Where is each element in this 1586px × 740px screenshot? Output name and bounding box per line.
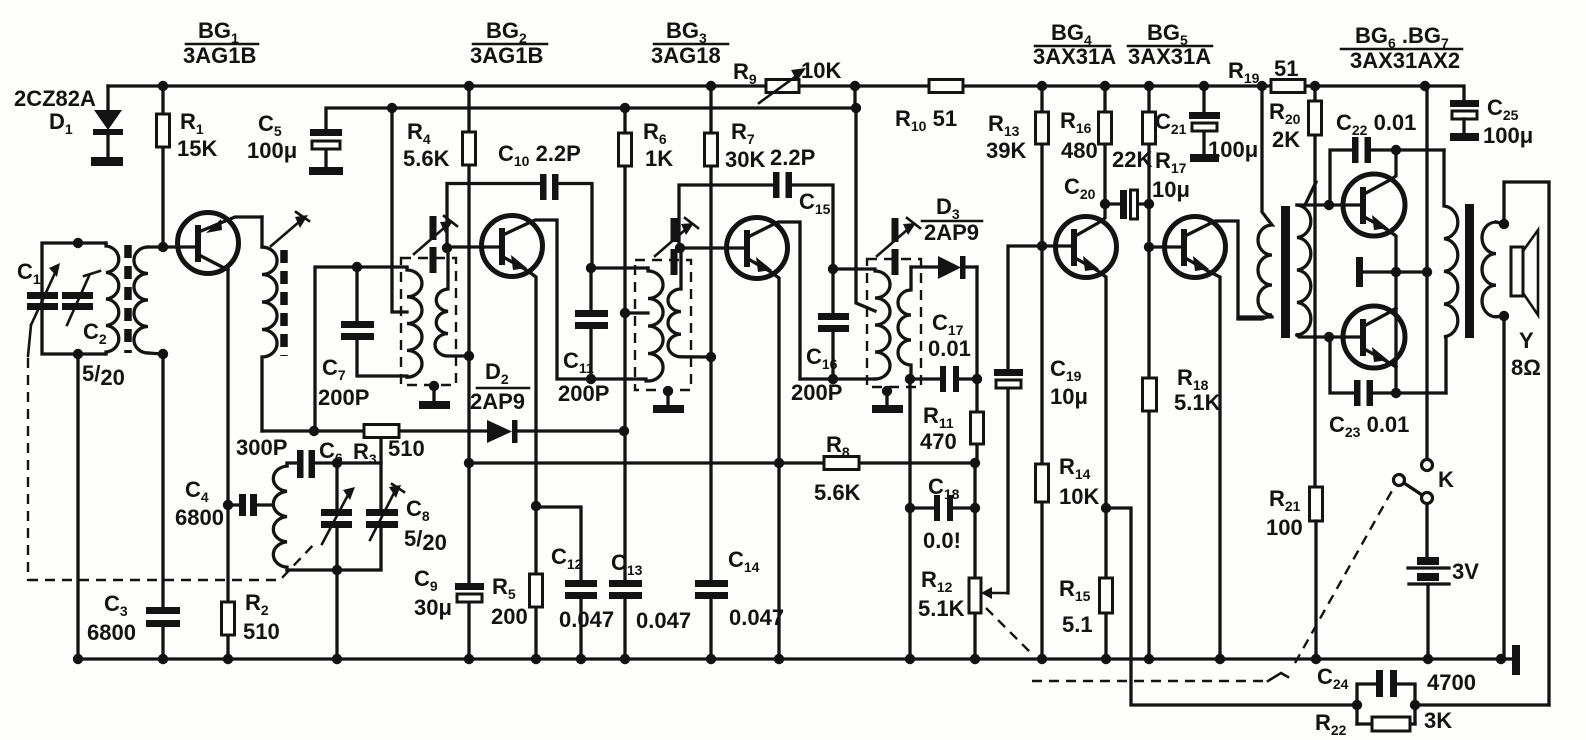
- IF T2 tuning arrow: [655, 218, 698, 256]
- wire BG4 base line: [1149, 204, 1181, 247]
- svg-text:51: 51: [1274, 56, 1298, 81]
- diode D2 2AP9: [470, 359, 624, 443]
- label BG2 3AG1B: [470, 18, 547, 68]
- node BG7 base-C23: [1324, 332, 1334, 342]
- capacitor C11 200P: [558, 268, 648, 406]
- IF T2 core slug: [671, 218, 678, 275]
- transistor BG7 3AX31: [1343, 306, 1405, 368]
- node rail-C21: [1199, 81, 1209, 91]
- resistor R1 15K: [157, 86, 218, 248]
- node collector-C4: [223, 500, 233, 510]
- node BG3 base: [675, 243, 685, 253]
- chassis bar bottom right: [1501, 645, 1520, 675]
- node rail-C3: [158, 654, 168, 664]
- svg-text:5.6K: 5.6K: [403, 146, 450, 171]
- svg-text:4700: 4700: [1427, 670, 1476, 695]
- capacitor C12 0.047: [536, 507, 614, 659]
- svg-text:39K: 39K: [986, 138, 1026, 163]
- node rail-78: [73, 654, 83, 664]
- capacitor C18 0.01: [905, 474, 980, 553]
- node rail-R9bypass: [850, 81, 860, 91]
- resistor R10 51 on rail: [895, 80, 963, 135]
- svg-text:2AP9: 2AP9: [470, 389, 525, 414]
- node rail-speaker: [1496, 654, 1506, 664]
- capacitor C23 0.01: [1329, 337, 1446, 440]
- wire T3 tap feed: [856, 108, 875, 311]
- wire R1 line down: [161, 354, 164, 607]
- output transformer core: [1465, 204, 1474, 338]
- wire IF1 primary tap feed: [392, 108, 407, 312]
- IF T2 ground: [653, 386, 684, 413]
- node rail-BG3e: [774, 654, 784, 664]
- label BG5 3AX31A: [1128, 20, 1212, 69]
- IF transformer T1 shield box: [401, 258, 456, 385]
- svg-text:200: 200: [491, 604, 528, 629]
- resistor R3 510: [353, 425, 425, 468]
- antenna coil core: [124, 245, 132, 353]
- wire tank bottom down: [76, 354, 79, 659]
- svg-text:BG6 .BG7: BG6 .BG7: [1355, 23, 1449, 51]
- svg-text:0.047: 0.047: [559, 607, 614, 632]
- svg-text:200P: 200P: [318, 385, 369, 410]
- svg-text:5.6K: 5.6K: [814, 480, 861, 505]
- node rail-910: [905, 654, 915, 664]
- capacitor C17 0.01: [910, 310, 977, 392]
- resistor R8 5.6K: [814, 432, 861, 505]
- wire speaker bottom down: [1502, 316, 1505, 659]
- node C20-R17: [1144, 199, 1154, 209]
- IF T3 secondary winding: [898, 267, 911, 379]
- wire C6 to ground rail: [335, 570, 338, 659]
- svg-text:C10 2.2P: C10 2.2P: [498, 141, 581, 169]
- oscillator coil tuning arrow: [271, 212, 309, 246]
- switch K: [1394, 460, 1455, 558]
- svg-text:5.1: 5.1: [1062, 612, 1093, 637]
- transistor BG6 3AX31: [1343, 150, 1405, 393]
- node R5 top: [531, 501, 541, 511]
- IF T1 core slug: [430, 216, 437, 273]
- variable capacitor C6: [319, 438, 355, 570]
- resistor R21 100: [1266, 486, 1323, 659]
- IF T3 core slug: [892, 218, 899, 275]
- svg-text:510: 510: [243, 619, 280, 644]
- wire BG6 base line: [1297, 203, 1360, 206]
- svg-text:100μ: 100μ: [247, 138, 297, 163]
- node rail-driver: [1257, 81, 1267, 91]
- svg-text:15K: 15K: [177, 136, 217, 161]
- node C23-collector: [1391, 388, 1401, 398]
- resistor R7 30K: [705, 86, 766, 659]
- IF T1 tuning arrow: [414, 216, 457, 254]
- chassis tap bar: [1356, 257, 1432, 287]
- node C22-collector: [1391, 145, 1401, 155]
- node C9 top: [464, 458, 474, 468]
- node line108-end: [851, 103, 861, 113]
- node rail-R15: [1101, 654, 1111, 664]
- node rail-R2: [223, 654, 233, 664]
- svg-text:6800: 6800: [87, 620, 136, 645]
- node rail-R21: [1311, 654, 1321, 664]
- svg-text:480: 480: [1061, 138, 1098, 163]
- capacitor C20 10u electrolytic: [1064, 174, 1149, 219]
- IF T2 primary winding: [646, 268, 663, 381]
- svg-text:100μ: 100μ: [1208, 137, 1258, 162]
- capacitor C13 0.047: [609, 550, 691, 633]
- svg-text:Y: Y: [1519, 328, 1534, 353]
- antenna coil primary: [106, 243, 119, 354]
- capacitor C9 30u electrolytic: [414, 463, 484, 659]
- IF T1 secondary winding: [435, 248, 469, 356]
- wire secondary top to base: [148, 245, 196, 248]
- node line108-R6: [620, 103, 630, 113]
- node coil-C7leg: [309, 426, 319, 436]
- capacitor C21 100u electrolytic: [1155, 86, 1258, 162]
- driver transformer primary: [1238, 86, 1272, 319]
- node rail-C13: [620, 654, 630, 664]
- node rail-R5: [531, 654, 541, 664]
- node rail-R17: [1144, 81, 1154, 91]
- capacitor C10 2.2P: [498, 141, 592, 268]
- IF T3 tuning arrow: [877, 218, 920, 256]
- resistor R14 10K: [1036, 246, 1100, 659]
- capacitor C15 2.2P: [679, 145, 833, 269]
- resistor R20 2K: [1269, 86, 1322, 487]
- resistor R15 5.1: [1059, 508, 1113, 659]
- svg-text:5.1K: 5.1K: [1174, 390, 1221, 415]
- resistor R2 510: [222, 590, 280, 644]
- svg-text:C22 0.01: C22 0.01: [1336, 110, 1416, 138]
- label BG6 BG7 3AX31AX2: [1341, 23, 1462, 73]
- transistor BG4 3AX31A: [1056, 204, 1117, 508]
- svg-text:3AX31AX2: 3AX31AX2: [1350, 48, 1460, 73]
- node T2 tap: [620, 308, 630, 318]
- svg-text:30K: 30K: [725, 147, 765, 172]
- transistor BG1 3AG1B: [178, 213, 263, 274]
- variable capacitor C1: [17, 259, 60, 356]
- wire switch feed: [1425, 86, 1428, 459]
- node rail-R20: [1310, 81, 1320, 91]
- svg-text:2AP9: 2AP9: [924, 220, 979, 245]
- oscillator tank coil: [273, 466, 287, 570]
- node rail-BG5e: [1215, 654, 1225, 664]
- node C17 left: [905, 374, 915, 384]
- node rail-R1: [158, 81, 168, 91]
- svg-text:5/20: 5/20: [82, 361, 125, 390]
- node R11-AGC: [970, 458, 980, 468]
- capacitor C25 100u electrolytic: [1450, 95, 1533, 148]
- node BG5 base: [1144, 242, 1154, 252]
- capacitor C16 200P: [791, 269, 849, 405]
- wire BG7 base line: [1297, 335, 1360, 337]
- wire R12 wiper up to BG4: [1008, 246, 1071, 593]
- node tank bottom C2: [73, 349, 83, 359]
- svg-text:3AX31A: 3AX31A: [1128, 44, 1211, 69]
- node rail-C6: [332, 654, 342, 664]
- node tankbot-C6: [332, 565, 342, 575]
- resistor R5 200: [491, 506, 543, 659]
- resistor R6 1K: [619, 108, 674, 659]
- antenna coil secondary: [134, 247, 148, 353]
- svg-text:3K: 3K: [1424, 708, 1452, 733]
- driver transformer core: [1281, 206, 1290, 338]
- capacitor C24 4700: [1317, 664, 1476, 724]
- resistor R19 51 on rail: [1228, 56, 1305, 93]
- node tanktop-C6: [332, 458, 342, 468]
- node rail-R16: [1100, 81, 1110, 91]
- node rail-R18: [1144, 654, 1154, 664]
- wire T3 sec bottom down: [908, 379, 911, 659]
- svg-text:3AG18: 3AG18: [651, 43, 721, 68]
- output transformer secondary: [1482, 222, 1504, 317]
- node T2sec-R7: [706, 352, 716, 362]
- node sec-bot: [158, 349, 168, 359]
- svg-text:10μ: 10μ: [1152, 177, 1190, 202]
- node R15 tap: [1101, 503, 1111, 513]
- wire R9 bypass stub: [853, 86, 856, 108]
- svg-text:10K: 10K: [1059, 484, 1099, 509]
- node rail-C12: [576, 654, 586, 664]
- resistor R16 480: [1060, 86, 1112, 204]
- svg-text:0.047: 0.047: [729, 605, 784, 630]
- node C17 right: [972, 374, 982, 384]
- resistor R4 5.6K: [403, 86, 476, 463]
- svg-text:0.0!: 0.0!: [923, 528, 961, 553]
- node rail-battery: [1423, 654, 1433, 664]
- node rail-R4: [464, 81, 474, 91]
- wire BG1 collector down: [226, 270, 229, 659]
- dashed gang link left: [28, 358, 316, 581]
- svg-text:2K: 2K: [1272, 127, 1300, 152]
- svg-text:22K: 22K: [1112, 147, 1152, 172]
- node speaker bottom: [1499, 311, 1509, 321]
- wire R4 branch: [447, 184, 540, 249]
- wire top supply rail: [108, 86, 1464, 101]
- oscillator coil core: [280, 250, 288, 356]
- svg-text:8Ω: 8Ω: [1511, 355, 1541, 380]
- svg-text:R10 51: R10 51: [895, 106, 957, 134]
- label BG3 3AG18: [651, 18, 728, 68]
- svg-text:6800: 6800: [175, 505, 224, 530]
- node base BG2: [442, 243, 452, 253]
- svg-text:0.01: 0.01: [928, 336, 971, 361]
- IF T2 tap wire: [625, 311, 648, 314]
- capacitor C3 6800: [87, 591, 180, 659]
- node C11 bottom: [586, 374, 596, 384]
- svg-text:470: 470: [920, 429, 957, 454]
- variable capacitor C8 5/20: [287, 431, 447, 570]
- potentiometer R12 5.1K volume: [918, 463, 1008, 659]
- resistor R13 39K: [986, 86, 1049, 246]
- node C5-tap: [387, 103, 397, 113]
- svg-text:0.047: 0.047: [636, 608, 691, 633]
- transistor BG5 3AX31A: [1165, 217, 1273, 660]
- variable capacitor C2: [62, 271, 125, 390]
- antenna tank frame: [42, 243, 106, 354]
- wire AGC bus y463: [469, 461, 975, 464]
- speaker Y 8ohm: [1511, 230, 1541, 380]
- svg-text:1K: 1K: [645, 146, 673, 171]
- node rail-switch: [1420, 81, 1430, 91]
- IF transformer T2 shield box: [635, 260, 691, 390]
- svg-text:510: 510: [388, 436, 425, 461]
- capacitor 300P: [236, 435, 381, 478]
- svg-text:2CZ82A: 2CZ82A: [14, 86, 96, 111]
- IF T2 secondary winding: [668, 248, 711, 357]
- capacitor C19 10u electrolytic: [994, 356, 1088, 409]
- capacitor C14 0.047: [695, 547, 784, 630]
- dashed link R12 to switch: [986, 608, 1030, 652]
- wire D3 cathode down: [975, 267, 978, 379]
- wire BG3 collector to T3: [800, 269, 875, 379]
- wire secondary bottom: [148, 353, 163, 354]
- battery 3V: [1408, 557, 1479, 659]
- label BG1 3AG1B: [183, 18, 258, 68]
- node rail-R13: [1037, 81, 1047, 91]
- wire feedback from R15 tap: [1106, 508, 1357, 705]
- svg-text:300P: 300P: [236, 435, 287, 460]
- node BG6 base-C22: [1324, 200, 1334, 210]
- capacitor C4 6800: [175, 477, 272, 530]
- node rail-R12: [970, 654, 980, 664]
- node rail-R7: [706, 81, 716, 91]
- svg-text:3AG1B: 3AG1B: [183, 43, 256, 68]
- svg-text:200P: 200P: [791, 380, 842, 405]
- IF T3 primary winding: [875, 271, 890, 379]
- node rail-C14: [706, 654, 716, 664]
- svg-text:C23 0.01: C23 0.01: [1329, 412, 1409, 440]
- node rail-C9: [464, 654, 474, 664]
- node C11 top: [586, 263, 596, 273]
- wire speaker top loop: [1496, 182, 1549, 705]
- svg-text:100μ: 100μ: [1483, 123, 1533, 148]
- svg-text:3AX31A: 3AX31A: [1033, 44, 1116, 69]
- potentiometer R9 10K on rail: [733, 58, 841, 103]
- capacitor C7 200P tank: [315, 267, 407, 431]
- capacitor C5 100u electrolytic: [247, 108, 856, 175]
- svg-text:3V: 3V: [1452, 559, 1479, 584]
- node C7 top: [352, 262, 362, 272]
- resistor R22 3K: [1315, 700, 1549, 738]
- resistor R17 22K: [1112, 86, 1190, 204]
- IF T1 primary winding: [407, 268, 422, 377]
- svg-text:10μ: 10μ: [1050, 384, 1088, 409]
- node BG4 base: [1037, 241, 1047, 251]
- wire AGC line R3-D2: [262, 429, 487, 432]
- node D2-R6line: [619, 426, 629, 436]
- node BG3 emitter-AGC: [774, 458, 784, 468]
- resistor R18 5.1K: [1143, 247, 1221, 659]
- svg-text:10K: 10K: [801, 58, 841, 83]
- svg-text:K: K: [1438, 467, 1454, 492]
- capacitor C22 0.01: [1330, 110, 1444, 205]
- svg-text:5.1K: 5.1K: [918, 596, 965, 621]
- node base-R1: [158, 242, 168, 252]
- IF T3 ground: [872, 386, 903, 413]
- node C16 top: [828, 264, 838, 274]
- node tank top C2: [73, 238, 83, 248]
- svg-text:30μ: 30μ: [414, 595, 452, 620]
- label BG4 3AX31A: [1033, 20, 1116, 69]
- node speaker top: [1499, 219, 1509, 229]
- output transformer primary: [1444, 150, 1458, 393]
- node C16 bottom: [828, 374, 838, 384]
- IF T1 ground: [419, 381, 450, 409]
- svg-text:5/20: 5/20: [404, 526, 447, 555]
- svg-text:2.2P: 2.2P: [770, 145, 815, 170]
- svg-text:100: 100: [1266, 515, 1303, 540]
- node T1sec-R4line: [464, 351, 474, 361]
- svg-text:200P: 200P: [558, 381, 609, 406]
- node BG4 collector: [1100, 199, 1110, 209]
- IF transformer T3 shield box: [867, 259, 921, 387]
- driver transformer secondary: [1297, 205, 1311, 335]
- transistor BG2 3AG1B: [447, 216, 646, 507]
- svg-text:3AG1B: 3AG1B: [470, 43, 543, 68]
- resistor R11 470: [920, 379, 984, 463]
- diode D1 2CZ82A: [14, 86, 123, 166]
- node rail-R14: [1037, 654, 1047, 664]
- diode D3 2AP9: [911, 194, 982, 279]
- oscillator coupling coil: [262, 247, 277, 431]
- transistor BG3 3AG18: [680, 218, 800, 660]
- wire bottom ground rail: [75, 657, 1501, 660]
